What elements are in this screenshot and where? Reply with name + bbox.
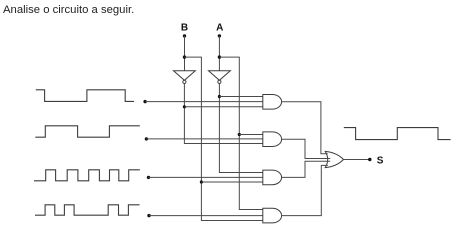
waveform D3	[35, 205, 140, 215]
inverter U1 (B)	[174, 71, 196, 81]
svg-text:S: S	[377, 155, 384, 166]
and-gate U5	[263, 170, 282, 185]
waveform S output	[344, 128, 451, 140]
node D2 input	[147, 176, 150, 179]
wire D3	[149, 215, 263, 217]
node A to AND2	[238, 133, 241, 136]
node A terminal	[218, 34, 221, 37]
wire B bypass	[185, 57, 263, 220]
wire B to AND3	[201, 181, 262, 183]
wire A vertical	[218, 36, 220, 71]
node B to AND3	[200, 180, 203, 183]
wire D2	[149, 176, 263, 178]
wire D1	[146, 138, 262, 140]
wire A to AND2	[239, 134, 262, 136]
node D1 input	[145, 137, 148, 140]
node D3 input	[147, 214, 150, 217]
svg-text:A: A	[216, 23, 223, 34]
wire U6 output to OR	[282, 165, 328, 215]
node D0 input	[143, 100, 146, 103]
node Anot to AND1	[218, 95, 221, 98]
node Bnot to AND1	[183, 105, 186, 108]
waveform D0	[36, 90, 134, 102]
svg-text:B: B	[181, 23, 188, 34]
or-gate U7	[325, 151, 343, 167]
node A junction	[218, 55, 221, 58]
wire S output	[344, 159, 369, 161]
wire A bypass	[219, 57, 262, 209]
wire Anot to AND1	[219, 96, 262, 98]
wire U5 output to OR	[282, 161, 331, 177]
and-gate U3	[263, 95, 282, 110]
and-gate U4	[263, 132, 282, 147]
wire B vertical	[184, 36, 186, 71]
svg-text:Analise o circuito a seguir.: Analise o circuito a seguir.	[3, 4, 134, 16]
wire U3 output to OR	[282, 102, 328, 154]
node S	[368, 158, 371, 161]
node B junction	[183, 55, 186, 58]
wire Bnot vertical	[184, 84, 262, 144]
waveform D2	[34, 170, 140, 181]
inverter U2 (A)	[209, 71, 231, 81]
wire Anot vertical	[219, 84, 262, 173]
node B terminal	[183, 34, 186, 37]
waveform D1	[35, 126, 140, 137]
wire D0	[145, 101, 263, 103]
and-gate U6	[263, 208, 282, 223]
wire Bnot to AND1	[184, 106, 262, 108]
wire U4 output to OR	[282, 139, 331, 158]
